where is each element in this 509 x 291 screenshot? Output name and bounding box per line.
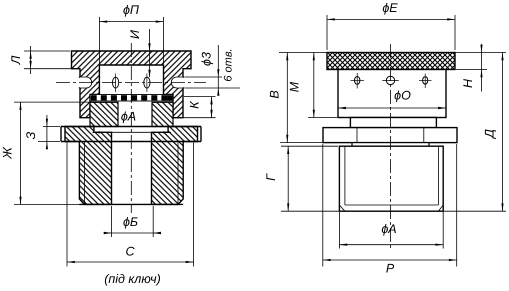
thread line right side view [437, 146, 439, 205]
flange skirt side view [338, 70, 446, 118]
body section right half [152, 127, 198, 205]
chamfer right [438, 205, 443, 211]
centerline right view [390, 44, 392, 249]
dimension phiO [338, 89, 446, 110]
far hole ellipse right [144, 74, 150, 93]
knurled band [327, 53, 455, 70]
radial hole left [79, 77, 91, 88]
dimension G [264, 146, 338, 211]
chamfer level line [345, 204, 439, 206]
svg-text:C: C [125, 245, 135, 259]
dimension L [9, 46, 79, 74]
body bottom edge [79, 203, 183, 205]
hex bottom edge [61, 141, 201, 143]
follower ring right half [152, 102, 173, 126]
thread line left side view [344, 146, 346, 205]
gasket [90, 95, 173, 102]
svg-text:ϕЕ: ϕЕ [382, 1, 398, 15]
svg-text:Г: Г [264, 173, 278, 181]
screw hole middle [382, 76, 399, 84]
centerline left view [130, 43, 132, 213]
screw hole left [351, 73, 365, 89]
dimension H [456, 44, 487, 92]
svg-text:Н: Н [461, 78, 475, 88]
dimension M [288, 53, 338, 118]
lower cylinder side view [339, 146, 443, 211]
dimension phi3 6 holes [185, 45, 241, 96]
extension line band top [279, 52, 506, 54]
dimension I leader [128, 29, 151, 78]
radial hole right [171, 77, 183, 88]
dimension phiE [327, 1, 455, 50]
dimension D [483, 53, 504, 212]
dimension phiA right [339, 212, 443, 249]
extension line bottom [281, 210, 506, 212]
dimension K [184, 97, 216, 118]
svg-text:Ж: Ж [1, 146, 15, 160]
svg-text:ϕА: ϕА [381, 222, 396, 236]
dimension B [268, 53, 324, 143]
dimension phiP [99, 3, 163, 64]
svg-text:ϕО: ϕО [394, 89, 411, 103]
hex silhouette left [60, 127, 62, 142]
body section left half [65, 127, 112, 205]
svg-text:ϕ3: ϕ3 [200, 52, 214, 66]
dimension Z [24, 115, 60, 149]
chamfer left [339, 205, 345, 211]
far hole ellipse left [113, 74, 119, 93]
dimension P [323, 144, 457, 276]
svg-text:(під ключ): (під ключ) [104, 272, 161, 286]
hex top edge [61, 126, 201, 128]
hex corner line left [356, 128, 358, 143]
svg-text:6 отв.: 6 отв. [223, 48, 235, 81]
svg-text:Д: Д [483, 129, 497, 140]
svg-text:Л: Л [9, 55, 23, 65]
svg-text:Р: Р [386, 262, 395, 276]
thread minor line left [84, 142, 86, 205]
svg-text:М: М [288, 81, 302, 92]
follower ring left half [90, 102, 118, 126]
horizontal centerline [56, 82, 206, 84]
dimension phiA left [92, 110, 171, 134]
thread minor line right [177, 142, 179, 205]
cover lip bottom edge line [183, 117, 216, 119]
svg-text:ϕА: ϕА [121, 110, 136, 124]
dimension phiB [104, 206, 161, 237]
hex silhouette right [200, 127, 202, 142]
hex corner line right [423, 128, 425, 143]
svg-text:З: З [24, 131, 38, 139]
dimension Zh [1, 102, 90, 204]
step band [350, 118, 436, 128]
screw hole right [419, 74, 432, 89]
thin collar band [352, 143, 429, 147]
svg-text:ϕП: ϕП [123, 3, 140, 17]
svg-text:ϕБ: ϕБ [123, 215, 138, 229]
hex band side view [323, 128, 457, 143]
svg-text:В: В [268, 90, 282, 98]
svg-text:К: К [188, 101, 202, 109]
dimension C (across flats) [67, 143, 194, 267]
cover nut section [72, 51, 192, 118]
svg-text:И: И [128, 30, 142, 39]
